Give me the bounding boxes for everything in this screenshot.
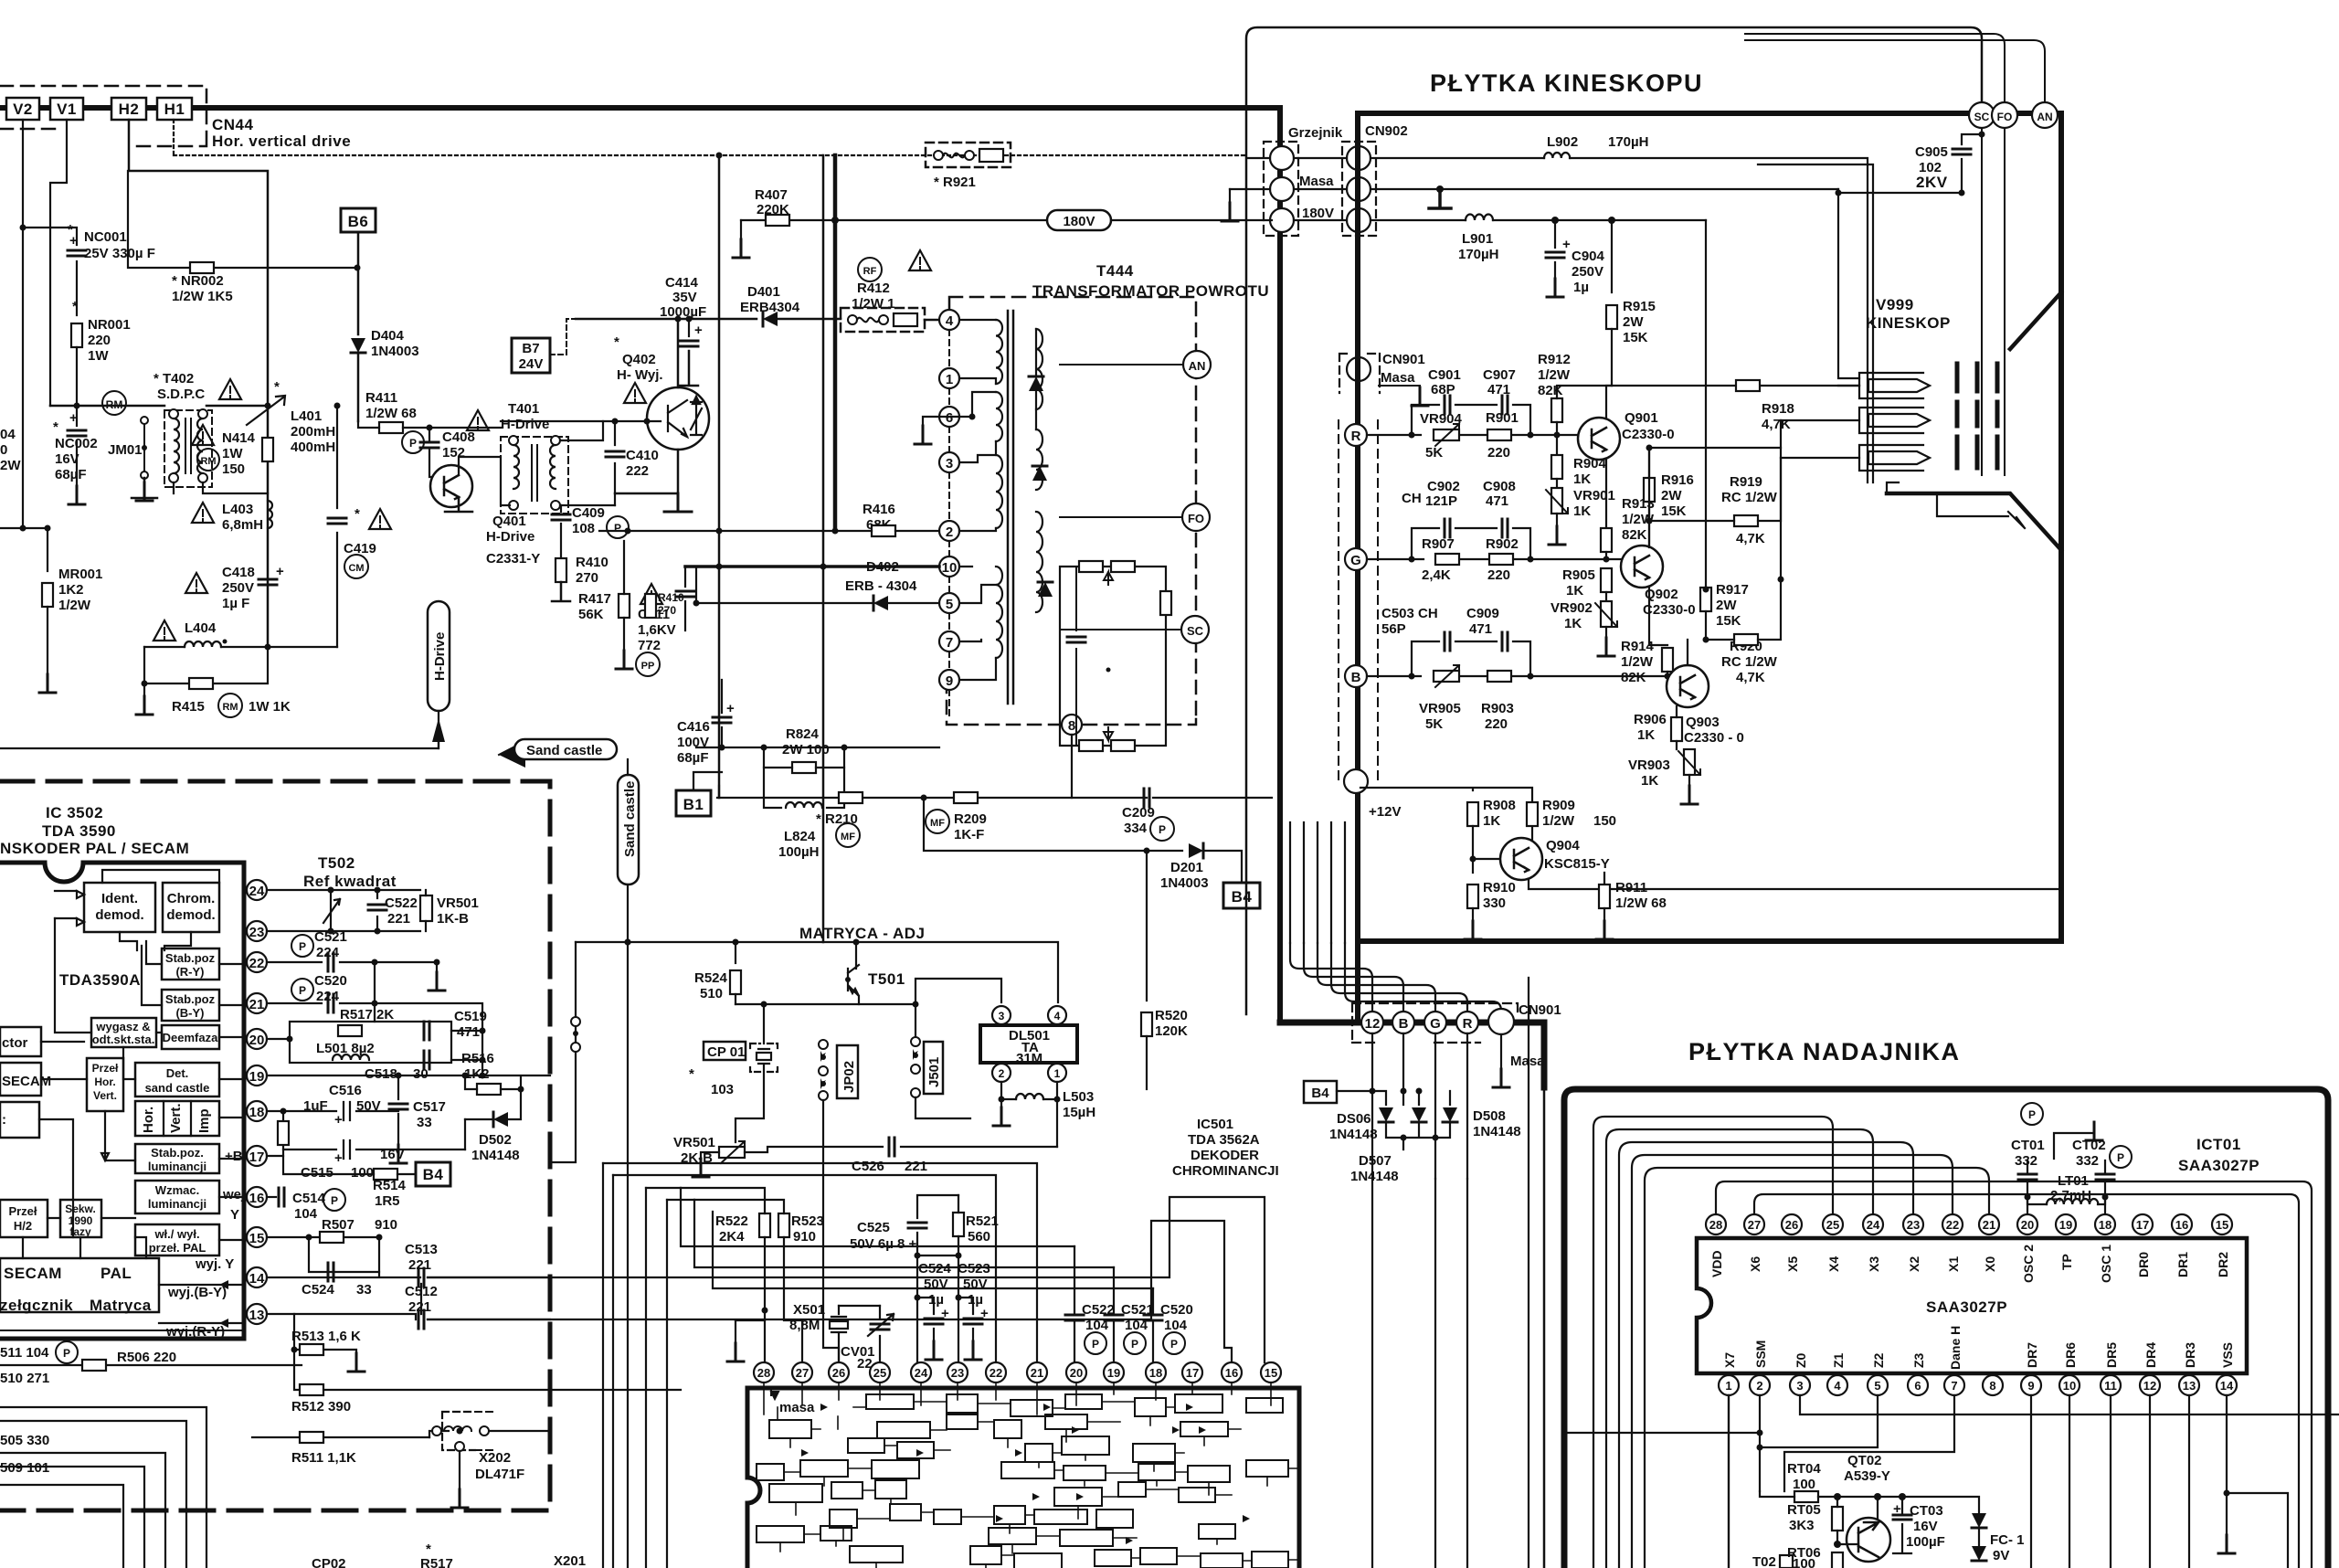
- IC501 internal blocks: [757, 1394, 1288, 1568]
- svg-text:30: 30: [413, 1066, 429, 1082]
- block wygasz: [91, 1018, 156, 1047]
- svg-text:P: P: [614, 522, 621, 535]
- svg-text:P: P: [1131, 1338, 1138, 1351]
- svg-text:560: 560: [968, 1229, 990, 1245]
- pin 10: [939, 556, 959, 577]
- board outer thin border: [1246, 27, 1982, 1014]
- svg-text:X202: X202: [479, 1450, 511, 1466]
- pin 19: [247, 1065, 267, 1086]
- svg-text:C522: C522: [385, 895, 418, 911]
- svg-text:17: 17: [249, 1150, 265, 1165]
- svg-text:N414: N414: [222, 430, 256, 446]
- block Wzmac luminancji: [135, 1181, 219, 1213]
- svg-text:T02: T02: [1752, 1554, 1776, 1568]
- node AN: [1183, 351, 1211, 378]
- svg-text:PP: PP: [641, 661, 655, 672]
- svg-text:CN44: CN44: [212, 116, 254, 133]
- pin 17 wire B4: [267, 1119, 465, 1156]
- svg-text:FC- 1: FC- 1: [1990, 1532, 2025, 1548]
- svg-text:Q904: Q904: [1546, 838, 1580, 853]
- svg-text:1K: 1K: [1573, 503, 1591, 519]
- svg-text:+: +: [726, 701, 735, 716]
- svg-text:1/2W 1: 1/2W 1: [852, 296, 895, 312]
- svg-text:Ref kwadrat: Ref kwadrat: [303, 873, 397, 890]
- svg-text:1/2W 68: 1/2W 68: [365, 406, 417, 421]
- svg-text:C525: C525: [857, 1220, 890, 1235]
- svg-text:X7: X7: [1722, 1352, 1737, 1368]
- node SC top: [1969, 102, 1995, 128]
- inductor L401: [247, 396, 285, 425]
- svg-text:SAA3027P: SAA3027P: [2178, 1157, 2260, 1174]
- resistor R916: [1644, 478, 1655, 502]
- svg-text:510: 510: [700, 986, 723, 1001]
- svg-text:RC 1/2W: RC 1/2W: [1721, 490, 1778, 505]
- svg-text:28: 28: [757, 1366, 770, 1380]
- svg-text:PŁYTKA NADAJNIKA: PŁYTKA NADAJNIKA: [1688, 1038, 1961, 1065]
- resistor R415: [144, 647, 268, 683]
- svg-text:2W: 2W: [1661, 488, 1682, 503]
- pin Masa: [1488, 1009, 1514, 1034]
- svg-text:1000µF: 1000µF: [660, 304, 706, 320]
- svg-text:D502: D502: [479, 1132, 512, 1148]
- wire sand line bottom: [627, 942, 629, 1568]
- svg-text:170µH: 170µH: [1458, 247, 1499, 262]
- svg-text:V2: V2: [13, 101, 33, 118]
- svg-text:1K: 1K: [1641, 773, 1658, 789]
- block Stab.poz R-Y: [162, 948, 219, 980]
- svg-text:Vert.: Vert.: [168, 1103, 184, 1133]
- block Chrom demod: [163, 883, 219, 932]
- svg-text:Deemfaza: Deemfaza: [163, 1031, 218, 1044]
- winding secondary HV: [1036, 329, 1042, 612]
- svg-text:*: *: [53, 419, 58, 435]
- P circle: [2021, 1103, 2043, 1125]
- svg-text:221: 221: [387, 911, 410, 927]
- svg-text:68µF: 68µF: [55, 467, 87, 482]
- svg-text:21: 21: [1031, 1366, 1043, 1380]
- svg-text:9V: 9V: [1993, 1548, 2009, 1563]
- svg-text:C517: C517: [413, 1099, 446, 1115]
- node RM: [102, 391, 126, 415]
- capacitor C411: [640, 584, 662, 604]
- R channel network: [1367, 434, 1578, 436]
- svg-text:SC: SC: [1974, 111, 1990, 123]
- SAA3027P body: [1697, 1238, 2247, 1373]
- wire boost feed thick: [833, 155, 838, 531]
- svg-text:wyj.(B-Y): wyj.(B-Y): [167, 1285, 227, 1300]
- svg-text:Chrom.: Chrom.: [167, 891, 216, 906]
- svg-text:P: P: [63, 1347, 70, 1360]
- svg-text:D201: D201: [1170, 860, 1203, 875]
- wire 22/21 joins: [375, 962, 437, 1022]
- svg-text:CP02: CP02: [312, 1556, 346, 1568]
- resistor R904: [1551, 455, 1562, 479]
- svg-text:2W: 2W: [1623, 314, 1644, 330]
- svg-text:1K2: 1K2: [58, 582, 84, 598]
- svg-text:23: 23: [249, 925, 265, 940]
- svg-text:RM: RM: [222, 702, 238, 713]
- svg-text:C526: C526: [852, 1159, 884, 1174]
- resistor R520: [1146, 851, 1148, 1001]
- svg-text:16V: 16V: [1913, 1519, 1938, 1534]
- svg-text:R412: R412: [857, 281, 890, 296]
- svg-text:L401: L401: [291, 408, 322, 424]
- svg-text:14: 14: [2220, 1379, 2234, 1393]
- svg-text:Stab.poz.: Stab.poz.: [151, 1146, 204, 1160]
- svg-text:J501: J501: [926, 1057, 942, 1087]
- svg-text:Stab.poz: Stab.poz: [165, 951, 216, 965]
- svg-text:B: B: [1399, 1016, 1409, 1032]
- svg-text:LT01: LT01: [2058, 1173, 2089, 1189]
- svg-text:20: 20: [249, 1033, 265, 1048]
- svg-text:20: 20: [1070, 1366, 1083, 1380]
- svg-text:121P: 121P: [1425, 493, 1457, 509]
- svg-text:R416: R416: [863, 502, 895, 517]
- svg-text:221: 221: [408, 1299, 431, 1315]
- resistor R918: [1736, 380, 1760, 391]
- svg-text:222: 222: [626, 463, 649, 479]
- delay line DL501: [980, 1025, 1077, 1063]
- svg-text::: :: [2, 1112, 6, 1128]
- svg-text:2: 2: [999, 1067, 1005, 1080]
- svg-text:B4: B4: [1311, 1086, 1329, 1101]
- IC501 body border: [747, 1388, 1299, 1568]
- pin2 wire: [1564, 1395, 1760, 1491]
- svg-text:511 104: 511 104: [0, 1345, 49, 1361]
- pin 7: [939, 631, 959, 652]
- block Ident demod: [84, 883, 155, 932]
- svg-text:VR903: VR903: [1628, 758, 1670, 773]
- svg-text:X5: X5: [1785, 1256, 1800, 1272]
- wire V2 branch: [0, 120, 48, 528]
- svg-text:R507: R507: [322, 1217, 355, 1233]
- svg-text:*: *: [426, 1542, 431, 1557]
- svg-text:R903: R903: [1481, 701, 1514, 716]
- svg-text:1K-F: 1K-F: [954, 827, 984, 842]
- svg-text:C2330-0: C2330-0: [1622, 427, 1675, 442]
- svg-text:R904: R904: [1573, 456, 1607, 471]
- svg-text:1µ: 1µ: [1573, 280, 1589, 295]
- wire long vertical H-drive feed: [718, 155, 721, 798]
- svg-text:B4: B4: [1232, 888, 1253, 906]
- svg-text:*: *: [72, 299, 78, 314]
- node blank: [1344, 769, 1368, 793]
- svg-text:68P: 68P: [1431, 382, 1455, 397]
- diodes DS06 D507 D508: [1372, 1033, 1467, 1179]
- svg-text:15K: 15K: [1661, 503, 1687, 519]
- inductor L403: [192, 503, 214, 523]
- svg-text:1µ F: 1µ F: [222, 596, 249, 611]
- svg-text:Hor.: Hor.: [94, 1075, 115, 1088]
- wire NR002 row: [128, 171, 357, 268]
- wire Q902 collector row: [1649, 420, 1859, 547]
- svg-text:G: G: [1350, 553, 1361, 568]
- pin 8: [1062, 715, 1082, 735]
- svg-text:221: 221: [408, 1257, 431, 1273]
- wire pin10 row: [685, 565, 939, 568]
- svg-text:1K: 1K: [1637, 727, 1655, 743]
- label B4 second: [1304, 1081, 1337, 1103]
- wire grid feed verticals: [1982, 128, 2005, 475]
- svg-text:C518: C518: [365, 1066, 397, 1082]
- svg-text:L404: L404: [185, 620, 217, 636]
- svg-text:C2331-Y: C2331-Y: [486, 551, 540, 567]
- pin 20 wire: [267, 1038, 290, 1040]
- svg-text:4: 4: [1834, 1379, 1841, 1393]
- label B4: [1223, 883, 1260, 908]
- pin7 wire: [1784, 1395, 1954, 1491]
- jumper JM01: [143, 420, 145, 475]
- svg-text:C418: C418: [222, 565, 255, 580]
- svg-text:27: 27: [1748, 1218, 1761, 1232]
- block Przel H/2: [0, 1200, 48, 1237]
- pin 5: [939, 593, 959, 613]
- block Stab.poz B-Y: [162, 990, 219, 1021]
- capacitor C522-104: [1065, 1315, 1084, 1320]
- focus network box: [1060, 567, 1166, 746]
- svg-text:82K: 82K: [1622, 527, 1647, 543]
- svg-text:SECAM: SECAM: [2, 1074, 51, 1089]
- svg-text:* T402: * T402: [153, 371, 194, 387]
- svg-text:15: 15: [2216, 1218, 2228, 1232]
- svg-text:(B-Y): (B-Y): [175, 1006, 204, 1020]
- wire T402 bottom row: [174, 482, 268, 493]
- pin 14: [247, 1267, 267, 1287]
- svg-text:26: 26: [1785, 1218, 1798, 1232]
- svg-text:Y: Y: [230, 1207, 239, 1223]
- svg-text:+: +: [69, 410, 78, 426]
- svg-text:CHROMINANCJI: CHROMINANCJI: [1172, 1163, 1279, 1179]
- wire Q903 collector row: [1688, 458, 1859, 665]
- wires demod tops: [55, 870, 219, 950]
- svg-text:8: 8: [1989, 1379, 1995, 1393]
- svg-text:VSS: VSS: [2220, 1342, 2235, 1368]
- svg-text:5: 5: [1874, 1379, 1880, 1393]
- svg-text:12: 12: [2143, 1379, 2156, 1393]
- svg-text:Z0: Z0: [1794, 1352, 1808, 1368]
- svg-text:R906: R906: [1634, 712, 1667, 727]
- svg-text:VR905: VR905: [1419, 701, 1461, 716]
- svg-text:RC 1/2W: RC 1/2W: [1721, 654, 1778, 670]
- wire left bundle verticals: [603, 1163, 667, 1568]
- svg-text:100: 100: [1793, 1556, 1815, 1568]
- diode FC-1: [1972, 1513, 1986, 1528]
- board inner thick border: [1358, 113, 2061, 941]
- pin B: [1392, 1012, 1414, 1033]
- svg-text:26: 26: [832, 1366, 845, 1380]
- svg-text:5: 5: [946, 597, 953, 612]
- svg-text:8,8M: 8,8M: [789, 1318, 820, 1333]
- svg-text:471: 471: [1486, 493, 1508, 509]
- svg-text:TDA 3590: TDA 3590: [42, 822, 116, 840]
- svg-text:C907: C907: [1483, 367, 1516, 383]
- resistor R917: [1700, 588, 1711, 611]
- wire jp02 long vertical: [823, 1100, 839, 1362]
- svg-text:ctor: ctor: [2, 1035, 28, 1051]
- svg-text:1: 1: [1725, 1379, 1731, 1393]
- svg-text:L901: L901: [1462, 231, 1493, 247]
- svg-text:8: 8: [1068, 718, 1075, 734]
- svg-text:DR2: DR2: [2216, 1252, 2230, 1277]
- node SC: [1181, 616, 1209, 643]
- diode D201: [1189, 843, 1203, 858]
- heavy wire CN901 column: [1355, 113, 1360, 1022]
- svg-text:Z3: Z3: [1911, 1352, 1926, 1368]
- CRT cathode 3: [1859, 445, 1930, 471]
- wire Q901 collector row: [1606, 386, 1859, 418]
- internal wires: [23, 918, 244, 1323]
- svg-text:220: 220: [1485, 716, 1508, 732]
- heavy wire CN901 bottom bus: [1280, 1022, 1544, 1087]
- capacitor C524b: [309, 1237, 379, 1272]
- svg-text:DR0: DR0: [2136, 1252, 2151, 1277]
- svg-text:24: 24: [915, 1366, 928, 1380]
- pin5 wire: [1760, 1395, 1878, 1447]
- svg-text:100: 100: [1793, 1477, 1815, 1492]
- svg-text:7: 7: [1951, 1379, 1957, 1393]
- diode HV3: [1038, 582, 1053, 597]
- svg-text:1N4003: 1N4003: [371, 344, 419, 359]
- svg-text:400mH: 400mH: [291, 440, 335, 455]
- svg-text:JP02: JP02: [841, 1061, 857, 1093]
- wire Q902 emitter: [1649, 587, 1667, 645]
- capacitor C518: [424, 1051, 429, 1069]
- svg-text:2,4K: 2,4K: [1422, 567, 1451, 583]
- B channel network: [1367, 675, 1667, 677]
- svg-text:9: 9: [2027, 1379, 2034, 1393]
- svg-text:R517: R517: [420, 1556, 453, 1568]
- diode D404: [351, 338, 365, 353]
- svg-text:QT02: QT02: [1847, 1453, 1882, 1468]
- svg-text:Q901: Q901: [1625, 410, 1658, 426]
- svg-text:T502: T502: [318, 854, 355, 872]
- node FO: [1182, 503, 1210, 531]
- svg-text:SSM: SSM: [1753, 1340, 1768, 1368]
- svg-text:2W: 2W: [0, 458, 21, 473]
- resistor NR002: [190, 262, 214, 273]
- wire masa to grid: [1838, 189, 1859, 378]
- svg-text:C904: C904: [1572, 249, 1605, 264]
- jumper J501: [924, 1042, 943, 1094]
- svg-text:10: 10: [2063, 1379, 2076, 1393]
- transistor Q903: [1667, 665, 1709, 707]
- transformer T401: [467, 410, 489, 430]
- wire pin column dashed: [948, 330, 950, 716]
- wire T402 row: [50, 405, 268, 408]
- svg-text:1N4148: 1N4148: [1329, 1127, 1378, 1142]
- diode HV1: [1029, 376, 1043, 391]
- svg-text:ERB - 4304: ERB - 4304: [845, 578, 917, 594]
- svg-text:ERB4304: ERB4304: [740, 300, 800, 315]
- svg-text:1K: 1K: [1483, 813, 1500, 829]
- SECTION:IC3502: [0, 781, 681, 1568]
- svg-text:100µF: 100µF: [1906, 1534, 1945, 1550]
- node R: [1345, 424, 1367, 446]
- block Hor Vert Imp: [135, 1101, 219, 1136]
- svg-text:R209: R209: [954, 811, 987, 827]
- capacitor C520: [291, 979, 313, 1001]
- svg-text:X0: X0: [1983, 1256, 1997, 1272]
- top pin labels rotated: [1709, 1245, 2230, 1283]
- svg-text:R916: R916: [1661, 472, 1694, 488]
- pin 9: [939, 670, 959, 690]
- svg-text:R914: R914: [1621, 639, 1655, 654]
- svg-text:170µH: 170µH: [1608, 134, 1649, 150]
- svg-text:334: 334: [1124, 821, 1148, 836]
- svg-text:* R921: * R921: [934, 175, 976, 190]
- pin 15: [247, 1227, 267, 1247]
- svg-text:V1: V1: [57, 101, 77, 118]
- svg-text:D507: D507: [1359, 1153, 1392, 1169]
- svg-text:PAL: PAL: [101, 1265, 132, 1282]
- svg-text:15: 15: [249, 1231, 265, 1246]
- svg-text:68µF: 68µF: [677, 750, 709, 766]
- capacitor C514: [267, 1196, 276, 1198]
- svg-text:104: 104: [294, 1206, 318, 1222]
- pot VR902: [1605, 592, 1607, 601]
- winding primary: [996, 320, 1002, 528]
- svg-text:+: +: [1562, 237, 1571, 252]
- svg-text:332: 332: [2015, 1153, 2037, 1169]
- svg-text:509 101: 509 101: [0, 1460, 49, 1476]
- svg-text:C520: C520: [1160, 1302, 1193, 1318]
- svg-text:5K: 5K: [1425, 716, 1443, 732]
- capacitor C519: [424, 1022, 429, 1040]
- block Sekw fazy: [60, 1200, 101, 1237]
- wire nested bus wrap: [1593, 1117, 1833, 1568]
- svg-text:MF: MF: [930, 818, 945, 829]
- svg-text:21: 21: [249, 997, 265, 1012]
- svg-text:C410: C410: [626, 448, 659, 463]
- diode HV2: [1032, 466, 1047, 481]
- svg-text:Dane H: Dane H: [1948, 1326, 1963, 1370]
- svg-text:2W: 2W: [1716, 598, 1737, 613]
- svg-text:5K: 5K: [1425, 445, 1443, 461]
- IC3502 body border: [0, 863, 244, 1339]
- delay line X202: [442, 1412, 475, 1450]
- svg-text:12: 12: [1365, 1016, 1381, 1032]
- svg-text:DR6: DR6: [2063, 1342, 2078, 1368]
- svg-text:R917: R917: [1716, 582, 1749, 598]
- svg-text:VR901: VR901: [1573, 488, 1615, 503]
- capacitor C209: [1144, 789, 1149, 807]
- svg-text:wyj.(R-Y): wyj.(R-Y): [165, 1324, 225, 1340]
- svg-text:demod.: demod.: [95, 907, 143, 923]
- svg-text:3: 3: [1796, 1379, 1803, 1393]
- svg-text:15: 15: [1265, 1366, 1277, 1380]
- IC501 pin row: [754, 1362, 1281, 1383]
- svg-text:104: 104: [1164, 1318, 1188, 1333]
- svg-text:DS06: DS06: [1337, 1111, 1371, 1127]
- svg-text:V999: V999: [1876, 296, 1914, 313]
- pin circles right column: [1347, 146, 1371, 170]
- G channel network: [1367, 558, 1621, 560]
- svg-text:DR7: DR7: [2025, 1342, 2039, 1368]
- svg-text:R909: R909: [1542, 798, 1575, 813]
- svg-text:1N4003: 1N4003: [1160, 875, 1209, 891]
- svg-text:2K4: 2K4: [719, 1229, 745, 1245]
- pin3 wire: [1800, 1395, 2339, 1414]
- capacitor C410: [614, 421, 616, 505]
- svg-text:27: 27: [796, 1366, 809, 1380]
- resistor R523: [778, 1213, 789, 1237]
- SECTION:NADAJNIK: [1372, 978, 2339, 1568]
- svg-text:1: 1: [946, 372, 953, 387]
- svg-text:R915: R915: [1623, 299, 1656, 314]
- svg-text:C419: C419: [344, 541, 376, 556]
- label T444 title: [909, 250, 931, 270]
- connector CN902 dashed: [1342, 142, 1376, 236]
